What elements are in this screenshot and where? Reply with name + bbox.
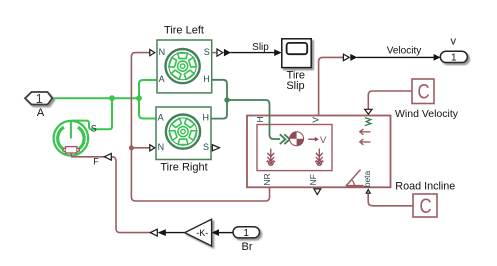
block Tire Right (156, 107, 211, 160)
wire A-net branch up to Tire Left A (139, 80, 157, 98)
icon wheel force front (315, 149, 323, 166)
svg-text:A: A (37, 107, 45, 119)
svg-text:NR: NR (262, 173, 272, 185)
block Tire Slip scope (282, 39, 311, 68)
icon wheel force rear (267, 149, 275, 166)
svg-text:NF: NF (308, 174, 318, 185)
svg-text:Slip: Slip (252, 42, 269, 53)
wire from sensor S to A-net (71, 98, 112, 129)
signal wire Slip (230, 52, 275, 54)
signal wire Br to gain (219, 232, 233, 234)
svg-text:Br: Br (242, 241, 253, 253)
port marker F open triangle (104, 153, 111, 160)
port marker S Tire Right unconnected (212, 145, 219, 151)
svg-text:S: S (91, 123, 97, 133)
arrow gain out (158, 229, 166, 236)
block gain -K- (185, 219, 212, 246)
port out v stadium (440, 51, 467, 63)
svg-text:V: V (311, 117, 321, 123)
arrow into gain (212, 229, 219, 236)
signal wire Velocity (357, 56, 434, 58)
svg-text:beta: beta (362, 170, 372, 187)
svg-text:A: A (159, 74, 165, 84)
svg-text:N: N (159, 47, 166, 57)
svg-text:Road Incline: Road Incline (395, 180, 455, 192)
arrow slip start (224, 49, 231, 57)
wire V out of vehicle (319, 57, 344, 115)
svg-text:Slip: Slip (286, 80, 304, 92)
icon wind arrows (360, 129, 371, 145)
svg-text:1: 1 (451, 53, 457, 64)
svg-text:S: S (204, 47, 210, 57)
svg-text:H: H (203, 113, 210, 123)
port marker N Tire Right (150, 145, 155, 151)
arrow into out port v (434, 54, 441, 61)
node junction A-net 2 (136, 95, 142, 101)
svg-text:H: H (255, 116, 265, 122)
wire A-net branch down to Tire Right A (139, 98, 156, 118)
svg-text:F: F (93, 157, 99, 167)
icon CG circle (290, 132, 304, 146)
port Connection Port 1 (A) hexagon (25, 91, 52, 106)
wire H into vehicle CG (227, 100, 280, 139)
signal wire gain out (165, 232, 185, 234)
icon road incline (346, 170, 364, 187)
port marker W open triangle down (365, 109, 372, 114)
port marker N Tire Left (150, 50, 155, 56)
wire N-net maroon (131, 53, 269, 201)
wire H-net dark green (211, 80, 227, 119)
node junction H-net (224, 97, 229, 102)
arrow into scope (274, 49, 281, 56)
block Wind Velocity constant C (412, 79, 434, 104)
port marker beta open triangle up (366, 190, 370, 194)
svg-text:A: A (158, 113, 164, 123)
port marker gain out open triangle (150, 229, 157, 236)
wire beta to Road C (368, 193, 413, 206)
svg-text:C: C (417, 81, 429, 104)
inner body rect (257, 125, 332, 171)
svg-text:v: v (450, 36, 456, 48)
svg-text:Wind Velocity: Wind Velocity (395, 108, 459, 120)
svg-text:1: 1 (243, 228, 249, 239)
node junction N-net (129, 145, 134, 150)
port marker V open (343, 54, 349, 61)
svg-text:1: 1 (36, 91, 43, 106)
port label W rotated green (365, 118, 371, 126)
block Vehicle Body (247, 116, 391, 188)
svg-text:S: S (203, 142, 209, 152)
port marker S Tire Left open (212, 52, 217, 54)
arrow velocity start (350, 54, 357, 61)
block Tire Left (157, 40, 212, 93)
icon tire wheel left (166, 49, 200, 83)
icon tire wheel right (166, 115, 200, 149)
wire N stub Tire Right (131, 147, 149, 149)
wire Wind C to W port (368, 91, 412, 110)
svg-text:Tire Left: Tire Left (164, 25, 204, 37)
caliper icon (63, 147, 79, 157)
svg-text:H: H (203, 74, 210, 84)
icon arrow V inside (308, 138, 315, 140)
wire F-net maroon down to gain line (71, 157, 150, 233)
node junction A-net 1 (109, 95, 115, 101)
wire A-net horizontal from port A (52, 97, 139, 99)
svg-text:N: N (158, 142, 165, 152)
svg-text:V: V (320, 135, 327, 146)
wheel sensor/brake block circle (54, 121, 89, 157)
icon double chevron into CG (280, 134, 290, 144)
port in Br stadium (233, 227, 260, 239)
block Road Incline constant C (413, 194, 437, 218)
svg-text:Velocity: Velocity (387, 46, 421, 57)
svg-text:C: C (419, 195, 431, 218)
svg-text:Tire Right: Tire Right (160, 162, 207, 174)
svg-text:-K-: -K- (196, 228, 208, 238)
port marker NF open triangle down (314, 189, 321, 195)
